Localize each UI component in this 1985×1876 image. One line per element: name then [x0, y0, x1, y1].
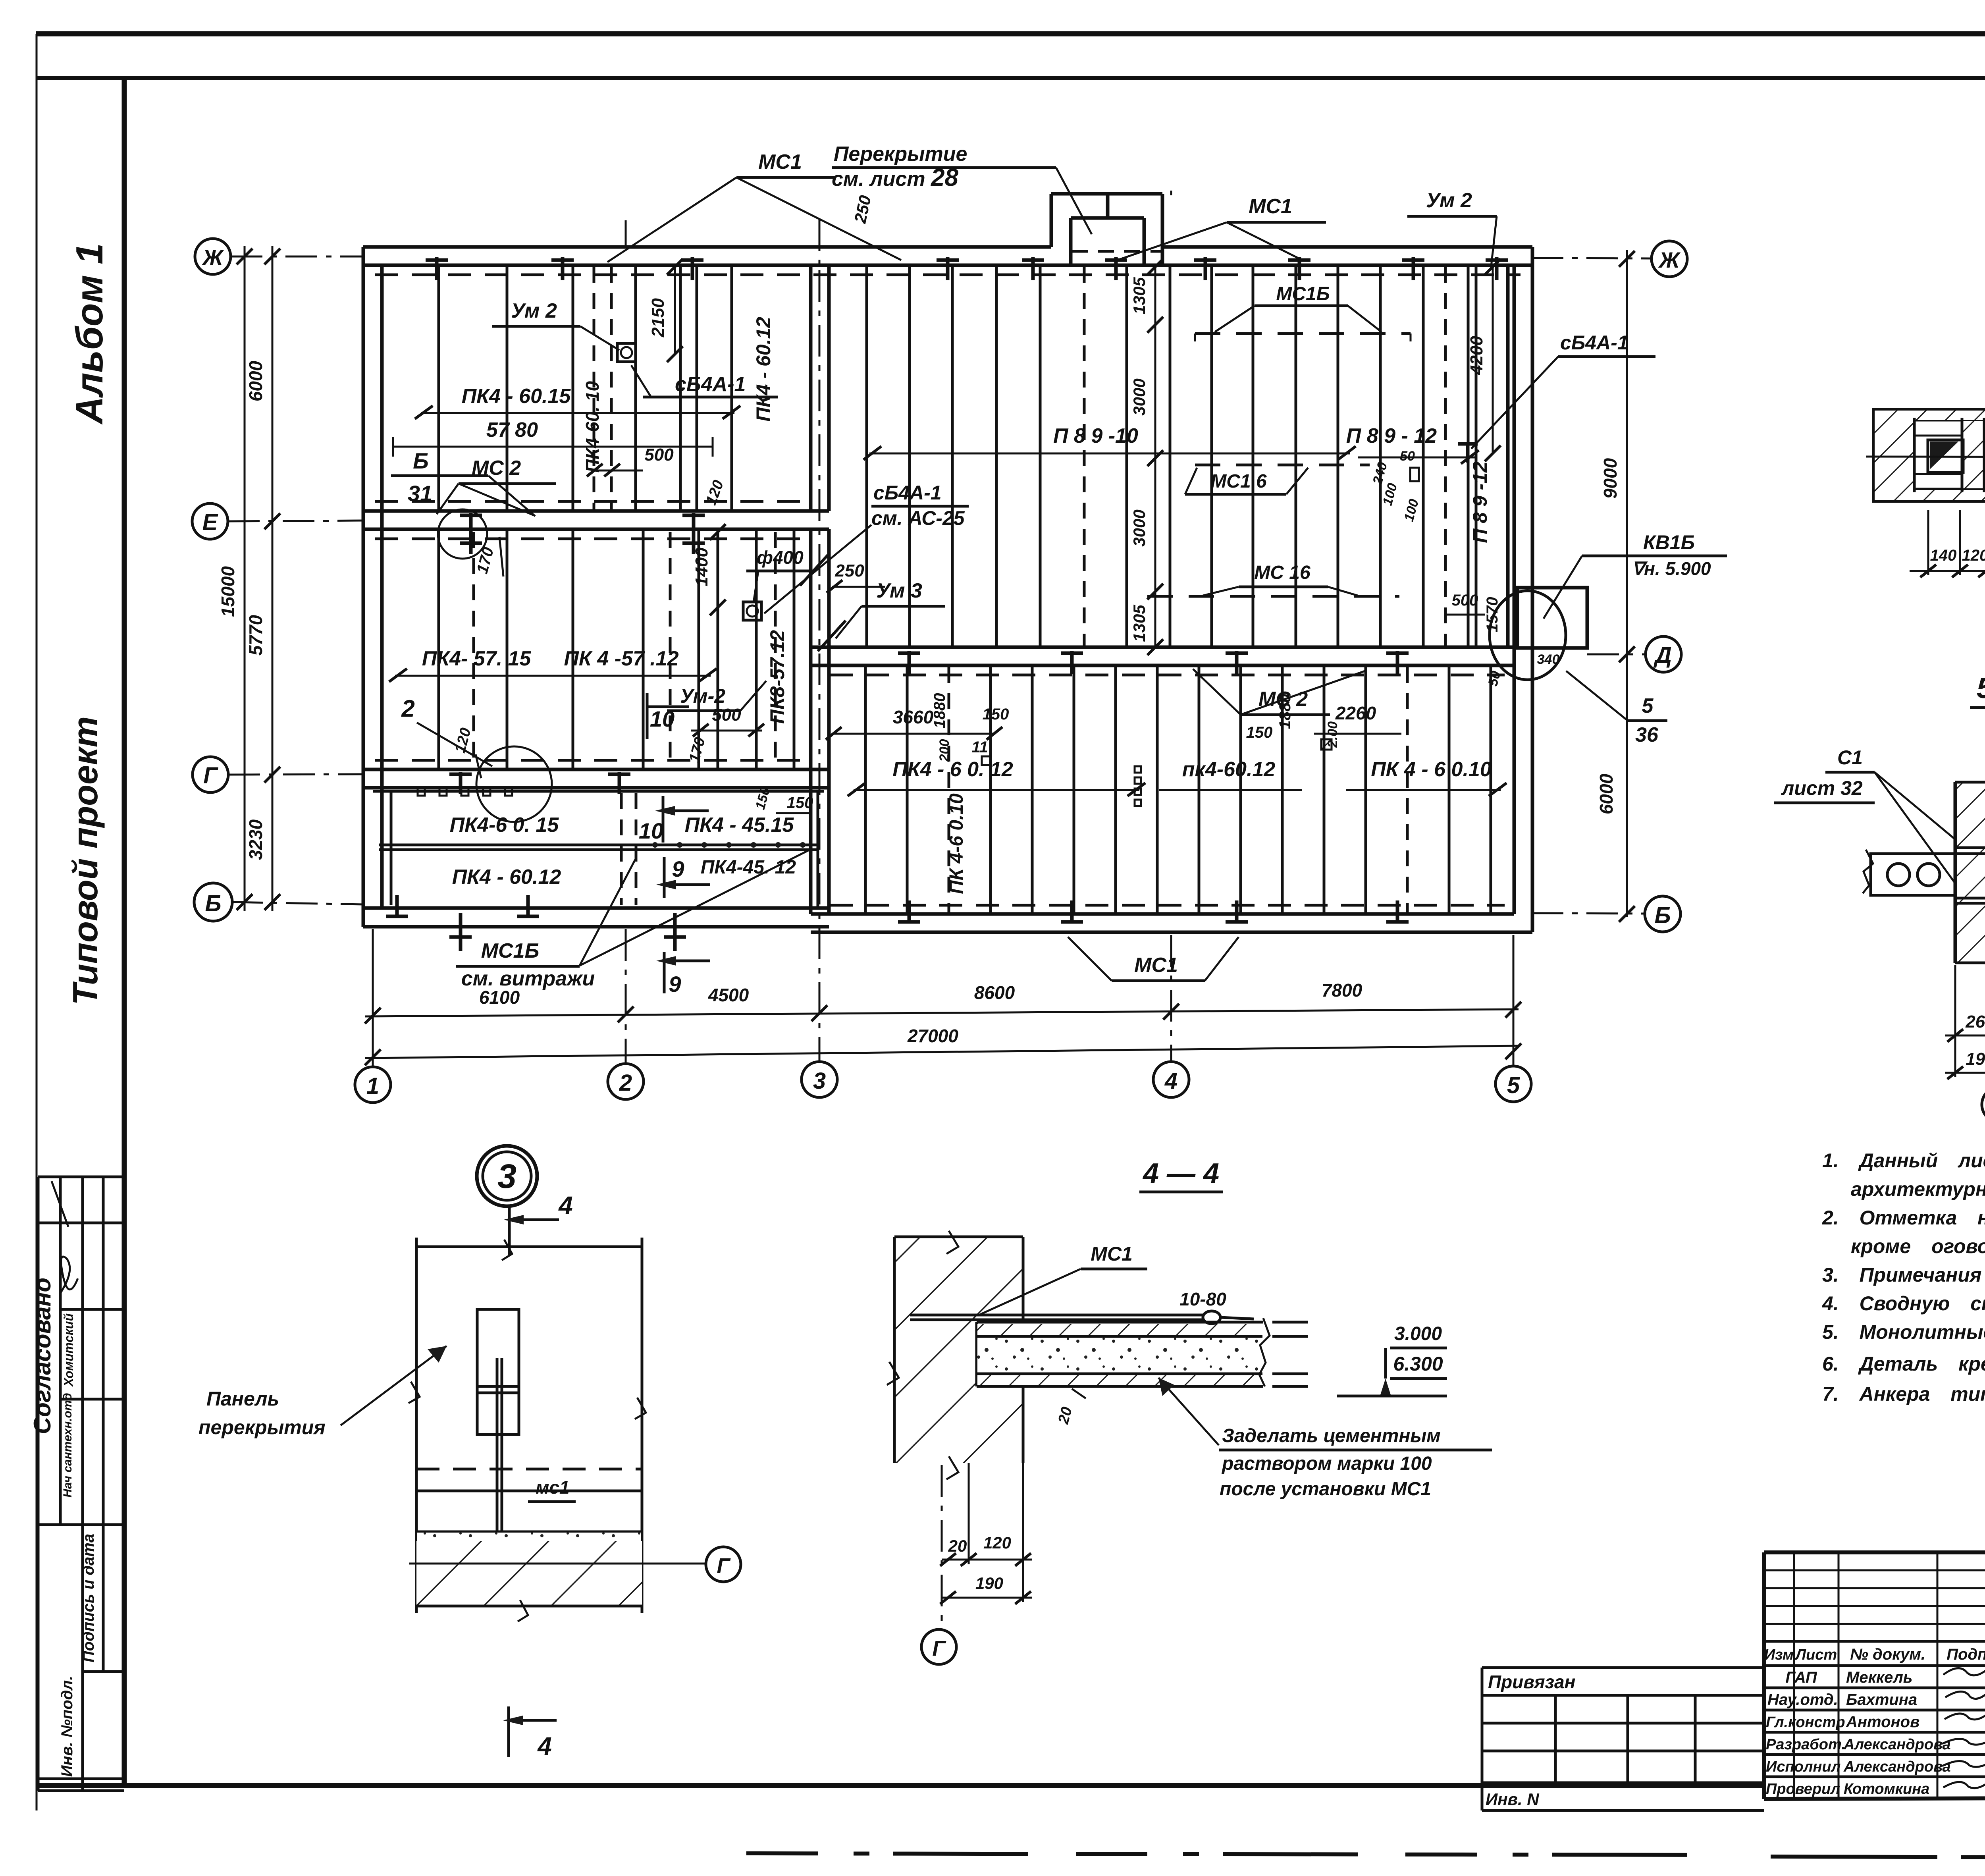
anchor tee [1105, 258, 1127, 262]
svg-text:3000: 3000 [1130, 378, 1149, 415]
svg-text:см. АС-25: см. АС-25 [871, 507, 965, 529]
top chord hatch [1914, 411, 1985, 420]
svg-text:Разработ.: Разработ. [1766, 1736, 1846, 1753]
svg-text:1. Данный лист ра: 1. Данный лист рассматривать совместно с [1822, 1149, 1985, 1172]
panel joint [1448, 665, 1451, 914]
svg-text:9000: 9000 [1600, 458, 1621, 499]
svg-text:П 8 9 -10: П 8 9 -10 [1053, 424, 1138, 447]
svg-text:Ум 2: Ум 2 [1426, 189, 1472, 212]
axis circle Г [1982, 1087, 1985, 1122]
svg-text:ПК4-60. 10: ПК4-60. 10 [582, 381, 603, 473]
dim 2150 rotated [674, 267, 676, 354]
section mark 4 top [508, 1205, 511, 1255]
stamp arrow mark [52, 1181, 68, 1227]
anchor glass symbol 2 [743, 602, 761, 620]
bottom dim line segments [365, 1009, 1519, 1016]
svg-text:3230: 3230 [245, 819, 266, 860]
svg-text:∇н. 5.900: ∇н. 5.900 [1632, 558, 1711, 579]
svg-text:9: 9 [672, 856, 684, 881]
svg-text:11: 11 [971, 738, 988, 756]
svg-text:4 — 4: 4 — 4 [1142, 1158, 1219, 1190]
privyazan table [1482, 1668, 1764, 1810]
svg-text:Александрова: Александрова [1843, 1736, 1951, 1753]
axis to Г [941, 1465, 943, 1627]
dim line lower labels [854, 789, 1139, 791]
svg-text:мс1: мс1 [536, 1477, 569, 1498]
svg-text:раствором марки 100: раствором марки 100 [1221, 1453, 1432, 1474]
anchor glass symbol СБ4А-1 [617, 343, 636, 362]
anchor tee [449, 773, 472, 776]
axis circle Б left [194, 883, 232, 921]
ANCHOR-TICKS [386, 257, 1508, 924]
dim line [1910, 570, 1985, 572]
detail circle on wall Г [476, 746, 552, 822]
frame bottom [38, 1783, 1764, 1788]
svg-text:ПК 4 - 6 0.10: ПК 4 - 6 0.10 [1371, 758, 1492, 781]
anchor tee [1386, 652, 1409, 655]
wall along axis Д [811, 647, 1514, 665]
panel joint [755, 529, 758, 769]
anchor tee [460, 542, 482, 545]
svg-text:МС1: МС1 [1134, 954, 1178, 977]
svg-text:лист 32: лист 32 [1781, 777, 1863, 799]
anchor tee [681, 258, 703, 262]
SECTION-5-5 [1774, 673, 1985, 1122]
dim 4200 rotated [1492, 267, 1494, 453]
panel joint [1422, 265, 1425, 647]
anchor tee [682, 542, 705, 545]
wall along axis Б left part [363, 908, 829, 927]
axis Г line [228, 774, 364, 775]
DETAIL-3 [198, 1146, 741, 1760]
panel joint [995, 265, 998, 647]
wall along axis Г [363, 769, 829, 788]
panel edge dashed under top wall [375, 274, 1521, 276]
svg-text:Лист: Лист [1794, 1647, 1837, 1663]
panel joint [1239, 665, 1242, 914]
svg-text:Котомкина: Котомкина [1844, 1781, 1929, 1797]
left stamp table [38, 1177, 124, 1791]
block inner edges [390, 791, 393, 905]
panel joint [642, 529, 645, 769]
svg-text:Панель: Панель [206, 1388, 279, 1410]
panel joint [1169, 265, 1172, 647]
svg-text:Антонов: Антонов [1846, 1713, 1919, 1731]
axis Ж line right [1532, 258, 1652, 258]
section mark 10 in block [662, 796, 665, 843]
anchor square dots row at Г wall [418, 789, 512, 796]
svg-text:6.300: 6.300 [1393, 1353, 1443, 1375]
svg-text:ПК4 - 45.15: ПК4 - 45.15 [685, 814, 794, 837]
column circle 5 [1495, 1066, 1531, 1102]
outer border left [36, 34, 38, 1810]
anchor tee at П89-12 [1458, 442, 1478, 446]
void fill triangle [1930, 442, 1958, 469]
detail circle on wall Е [438, 509, 487, 559]
anchor tee [1402, 258, 1424, 262]
svg-text:7800: 7800 [1322, 980, 1363, 1001]
svg-text:сБ4А-1: сБ4А-1 [675, 373, 746, 396]
svg-text:5: 5 [1507, 1072, 1520, 1098]
svg-text:6000: 6000 [245, 361, 266, 401]
svg-text:4. Сводную спецификацию: 4. Сводную спецификацию см. листы 37,38. [1822, 1292, 1985, 1315]
panel joint [1490, 665, 1492, 914]
axis circle Г detail3 [706, 1547, 741, 1582]
svg-text:МС 2: МС 2 [472, 457, 521, 480]
panel joint [1364, 665, 1367, 914]
PANEL-JOINTS [373, 265, 1491, 914]
svg-text:4: 4 [1164, 1068, 1178, 1094]
PLAN-LABELS-LEFT [389, 143, 1092, 822]
svg-text:Типовой проект: Типовой проект [66, 716, 105, 1005]
svg-text:Е: Е [202, 509, 219, 535]
panel joint [572, 529, 574, 769]
svg-text:2. Отметка низа пан: 2. Отметка низа панелей перекрытия 6.300… [1822, 1207, 1985, 1229]
anchor tee [1194, 258, 1216, 262]
beam axis line [1866, 457, 1985, 457]
svg-text:ф400: ф400 [757, 547, 804, 568]
svg-text:П 8 9 - 12: П 8 9 - 12 [1346, 424, 1437, 447]
svg-text:190: 190 [975, 1574, 1003, 1593]
panel joint [865, 265, 868, 647]
МС16 dashed anchor bar 2 [1195, 464, 1370, 467]
narrow panel dashed joint [593, 267, 595, 509]
svg-text:57 80: 57 80 [486, 418, 538, 442]
svg-text:Нач сантехн.отд: Нач сантехн.отд [61, 1393, 74, 1497]
svg-text:7. Анкера типа МС с: 7. Анкера типа МС см. лист 3Б. [1822, 1383, 1985, 1405]
column circle 2 [608, 1064, 644, 1099]
svg-text:ПК 4-6 0.10: ПК 4-6 0.10 [946, 793, 967, 894]
МС16 dashed anchor bar 1 [1195, 332, 1411, 335]
dim line under ПК4-57 labels [395, 675, 711, 677]
section mark 9 bottom [663, 952, 666, 993]
svg-text:500: 500 [712, 705, 741, 725]
left slab hollow core [1871, 854, 1955, 895]
svg-text:1570: 1570 [1484, 597, 1501, 632]
panel joint [1252, 265, 1255, 647]
МС1 anchor rod [910, 1314, 1203, 1317]
panel joint [906, 665, 909, 914]
svg-text:ПК4-45. 12: ПК4-45. 12 [701, 857, 796, 878]
vertical dim chain right bay [1154, 267, 1156, 647]
left wall axis 1 [363, 247, 382, 927]
svg-text:Александрова: Александрова [1843, 1758, 1951, 1775]
axis Ж line left [231, 256, 364, 258]
anchor dotted row [652, 842, 806, 848]
section mark 4 bottom [507, 1706, 510, 1757]
TITLE-BLOCK [1482, 1552, 1985, 1840]
svg-text:140: 140 [1930, 547, 1957, 564]
svg-text:ПК4-6 0. 15: ПК4-6 0. 15 [450, 814, 559, 837]
svg-text:ПК 4 -57 .12: ПК 4 -57 .12 [564, 647, 678, 670]
floor stipple strip [416, 1531, 642, 1533]
svg-text:8600: 8600 [974, 982, 1015, 1003]
anchor tee [1022, 258, 1044, 262]
svg-text:5. Монолитные участки: 5. Монолитные участки см. лист 32,33. [1822, 1321, 1985, 1343]
panel void [1928, 440, 1963, 472]
slab [977, 1321, 1263, 1324]
svg-text:Г: Г [932, 1637, 946, 1660]
svg-text:Согласовано: Согласовано [29, 1278, 56, 1434]
svg-text:6. Деталь крепления стак: 6. Деталь крепления стаканов СБ4А-1 см. … [1822, 1353, 1985, 1375]
panel joint [1295, 265, 1297, 647]
bottom dims [968, 1463, 970, 1564]
svg-text:27000: 27000 [907, 1026, 958, 1046]
panel joint [1031, 665, 1034, 914]
dim line under ПК4-60.15 [421, 412, 734, 414]
axis circle Г left [193, 757, 228, 792]
column circle 1 [355, 1067, 391, 1103]
roof hatch opening (chimney) [1051, 194, 1162, 265]
svg-text:Инв. N: Инв. N [1486, 1790, 1540, 1809]
panel joint [1039, 265, 1042, 647]
svg-text:Меккель: Меккель [1846, 1669, 1912, 1686]
axis circle Ж right [1652, 241, 1687, 277]
anchor tee [1226, 652, 1248, 655]
axis Б line right [1532, 913, 1645, 914]
panel joint [437, 265, 440, 511]
column axis lines below plan [372, 929, 374, 1067]
anchor tee [608, 773, 630, 776]
column axis stubs above top wall [625, 220, 627, 248]
anchor tee [386, 915, 408, 918]
slab break piece [1259, 1318, 1270, 1386]
svg-text:3: 3 [813, 1068, 826, 1094]
anchor rod МС1 [497, 1358, 596, 1583]
svg-text:5—5: 5—5 [1977, 673, 1985, 704]
horizontal joint lines in wall [1955, 846, 1985, 849]
panel joint [506, 265, 509, 511]
anchor tee [898, 920, 920, 924]
dim ticks left [237, 249, 280, 910]
svg-text:см. лист 28: см. лист 28 [832, 164, 958, 191]
МС16 dashed anchor bar 3 [1147, 595, 1399, 598]
svg-text:Ум-2: Ум-2 [680, 685, 725, 707]
svg-text:МС1Б: МС1Б [481, 939, 540, 962]
left dim line chain [272, 246, 274, 911]
wall along axis Е [363, 511, 829, 529]
svg-text:Б: Б [413, 448, 429, 473]
svg-text:Гл.констр: Гл.констр [1766, 1714, 1845, 1731]
SECTION-4-4 [887, 1158, 1492, 1664]
svg-text:ПК4 - 60.15: ПК4 - 60.15 [462, 385, 571, 408]
anchor tee [1061, 920, 1083, 924]
svg-text:после установки МС1: после установки МС1 [1220, 1479, 1431, 1500]
top wall along axis Ж [363, 247, 1532, 265]
svg-text:Перекрытие: Перекрытие [834, 143, 967, 166]
wall column hatched [1955, 782, 1985, 963]
anchor tee [1226, 920, 1248, 924]
svg-text:10: 10 [650, 706, 675, 731]
section mark 9 in block [663, 857, 666, 898]
panel joint [1281, 665, 1284, 914]
panel joint [1198, 665, 1201, 914]
anchor tee [551, 258, 574, 262]
panel joint horizontal [379, 844, 818, 846]
svg-text:15000: 15000 [218, 566, 238, 617]
signature squiggle [60, 1257, 78, 1294]
panel joint [1337, 265, 1339, 647]
svg-text:1880: 1880 [931, 693, 948, 729]
svg-text:3. Примечания п. 4-6: 3. Примечания п. 4-6 см. лист 29. [1822, 1264, 1985, 1286]
svg-text:50: 50 [1400, 449, 1415, 464]
axis circle Г sec44 [921, 1629, 956, 1664]
svg-text:6000: 6000 [1596, 773, 1617, 814]
svg-text:Ум 2: Ум 2 [511, 299, 557, 322]
panel joint [1114, 665, 1117, 914]
AXES-AND-DIMS [192, 191, 1687, 1103]
axis circle Д right [1646, 636, 1681, 672]
svg-text:150: 150 [787, 794, 813, 812]
callout ellipse 5/36 [1490, 591, 1566, 680]
panel joint [506, 529, 509, 769]
svg-text:2: 2 [401, 695, 414, 722]
outer border top [36, 31, 1985, 37]
svg-text:Инв. №подл.: Инв. №подл. [58, 1676, 76, 1777]
svg-text:МС1: МС1 [1091, 1243, 1133, 1265]
right dim line [1626, 250, 1628, 917]
right wall axis 5 [1508, 247, 1532, 932]
svg-text:5: 5 [1642, 694, 1654, 717]
axis Б line left [231, 902, 364, 904]
scan edge bottom [746, 1853, 1723, 1855]
panel joint [717, 529, 719, 769]
beam body [1874, 410, 1985, 501]
wall jog at axis 3 [811, 265, 829, 914]
leader lines to МС16 label [580, 850, 810, 966]
svg-text:Подпись и дата: Подпись и дата [80, 1534, 97, 1662]
panel joint [730, 265, 733, 511]
svg-text:см. витражи: см. витражи [461, 967, 595, 990]
anchor tee [460, 514, 482, 517]
top band line [36, 76, 1985, 80]
svg-text:МС1Б: МС1Б [1276, 283, 1330, 305]
svg-text:МС 16: МС 16 [1254, 562, 1310, 583]
svg-text:5770: 5770 [245, 615, 266, 656]
anchor tee [1386, 920, 1409, 924]
svg-text:Ж: Ж [1658, 247, 1681, 272]
svg-text:2150: 2150 [648, 298, 668, 337]
КВ16 box [1517, 588, 1587, 648]
svg-text:ПК4 - 60.12: ПК4 - 60.12 [752, 317, 775, 422]
panel joint [698, 529, 700, 769]
svg-text:ПК4 - 6 0. 12: ПК4 - 6 0. 12 [892, 758, 1013, 781]
detail circle 3 [477, 1146, 537, 1206]
svg-text:4: 4 [537, 1732, 552, 1760]
anchor tee [1486, 258, 1508, 262]
svg-text:ПК4 - 60.12: ПК4 - 60.12 [452, 866, 561, 889]
svg-text:4500: 4500 [708, 985, 749, 1005]
svg-text:кроме оговоренных.: кроме оговоренных. [1851, 1235, 1985, 1257]
svg-text:120: 120 [983, 1533, 1011, 1552]
svg-text:Б: Б [1654, 902, 1671, 928]
svg-text:2: 2 [619, 1070, 632, 1096]
anchor plate [477, 1309, 519, 1434]
svg-text:4200: 4200 [1467, 336, 1486, 375]
svg-text:Бахтина: Бахтина [1846, 1691, 1917, 1708]
panel joint [1210, 265, 1213, 647]
NOTES [1822, 1149, 1985, 1405]
MAIN-PLAN [363, 194, 1532, 932]
svg-text:Исполнил: Исполнил [1766, 1758, 1840, 1775]
svg-text:Хомитский: Хомитский [62, 1313, 76, 1387]
svg-text:КВ1Б: КВ1Б [1643, 531, 1695, 553]
axis Е line [228, 521, 364, 521]
svg-text:9: 9 [669, 972, 681, 997]
svg-text:архитектурными листами: архитектурными листами 10, 11. [1851, 1178, 1985, 1200]
break slash marks [800, 555, 828, 586]
svg-text:ПК8-57.12: ПК8-57.12 [766, 630, 788, 724]
column circle 3 [802, 1062, 837, 1097]
svg-text:10-80: 10-80 [1179, 1289, 1226, 1309]
svg-text:36: 36 [1635, 723, 1659, 746]
beam end hatch left [1875, 411, 1914, 500]
panel joint [572, 265, 574, 511]
svg-text:Привязан: Привязан [1488, 1672, 1575, 1692]
wall along axis Б right part [811, 914, 1532, 932]
svg-text:Б: Б [205, 891, 221, 916]
svg-text:3.000: 3.000 [1394, 1323, 1442, 1344]
anchor tee [1061, 652, 1083, 655]
anchor tee [426, 258, 448, 262]
signatures [1942, 1668, 1985, 1788]
panel joint [864, 665, 867, 914]
svg-text:МС1 6: МС1 6 [1210, 471, 1267, 492]
svg-text:Нау.отд.: Нау.отд. [1767, 1691, 1838, 1708]
section mark 10 middle [646, 693, 649, 739]
svg-text:500: 500 [1452, 592, 1478, 609]
bottom chord hatch [1914, 490, 1985, 500]
svg-text:150: 150 [983, 706, 1009, 723]
svg-text:150: 150 [1246, 724, 1273, 741]
anchor tee [898, 652, 920, 655]
anchor square dots column near axis 4 [1135, 766, 1141, 806]
svg-text:МС1: МС1 [758, 150, 802, 174]
detail borders [415, 1238, 418, 1613]
svg-text:ГАП: ГАП [1785, 1669, 1817, 1686]
svg-text:С1: С1 [1837, 746, 1863, 769]
svg-text:ПК4- 57. 15: ПК4- 57. 15 [422, 647, 532, 670]
svg-text:10: 10 [639, 818, 663, 843]
svg-text:250: 250 [834, 561, 864, 580]
svg-text:190: 190 [1966, 1049, 1985, 1069]
wall hatched [894, 1237, 1023, 1322]
svg-text:3660: 3660 [893, 707, 934, 727]
svg-text:Ум 3: Ум 3 [876, 579, 922, 602]
panel joint [696, 265, 698, 511]
extension lines [1954, 965, 1956, 1077]
svg-text:340: 340 [1537, 652, 1560, 667]
floor hatched block [416, 1541, 642, 1606]
svg-text:1305: 1305 [1130, 605, 1149, 642]
PLAN-LABELS-RIGHT [863, 189, 1727, 746]
bottom dim line total [365, 1046, 1519, 1058]
panel joint [1156, 665, 1159, 914]
column circle 4 [1153, 1062, 1189, 1097]
svg-text:МС1: МС1 [1249, 195, 1292, 218]
panel joint [1073, 665, 1075, 914]
panel joint [908, 265, 911, 647]
left dim line 15000 [244, 246, 246, 911]
svg-text:перекрытия: перекрытия [198, 1416, 326, 1438]
axis line to Г [409, 1563, 706, 1565]
svg-text:сБ4А-1: сБ4А-1 [1560, 332, 1628, 354]
svg-text:31: 31 [408, 481, 432, 506]
svg-text:500: 500 [644, 445, 674, 465]
anchor tee [682, 514, 705, 517]
svg-text:20: 20 [948, 1537, 967, 1555]
svg-text:Д: Д [1653, 642, 1672, 668]
